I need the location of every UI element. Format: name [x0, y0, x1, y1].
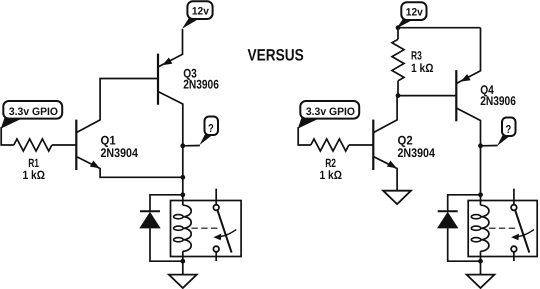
svg-text:2N3906: 2N3906 — [183, 78, 219, 92]
svg-text:3.3v GPIO: 3.3v GPIO — [306, 106, 355, 118]
svg-text:1 kΩ: 1 kΩ — [411, 61, 434, 75]
svg-text:1 kΩ: 1 kΩ — [320, 168, 343, 182]
svg-text:1 kΩ: 1 kΩ — [23, 168, 46, 182]
svg-text:VERSUS: VERSUS — [248, 46, 304, 64]
svg-text:12v: 12v — [406, 6, 423, 18]
svg-text:2N3904: 2N3904 — [101, 146, 138, 160]
svg-text:12v: 12v — [192, 5, 209, 17]
svg-text:?: ? — [506, 124, 512, 136]
svg-text:2N3904: 2N3904 — [398, 146, 435, 160]
svg-text:3.3v GPIO: 3.3v GPIO — [9, 106, 58, 118]
svg-text:2N3906: 2N3906 — [480, 94, 516, 108]
svg-text:?: ? — [208, 123, 214, 135]
